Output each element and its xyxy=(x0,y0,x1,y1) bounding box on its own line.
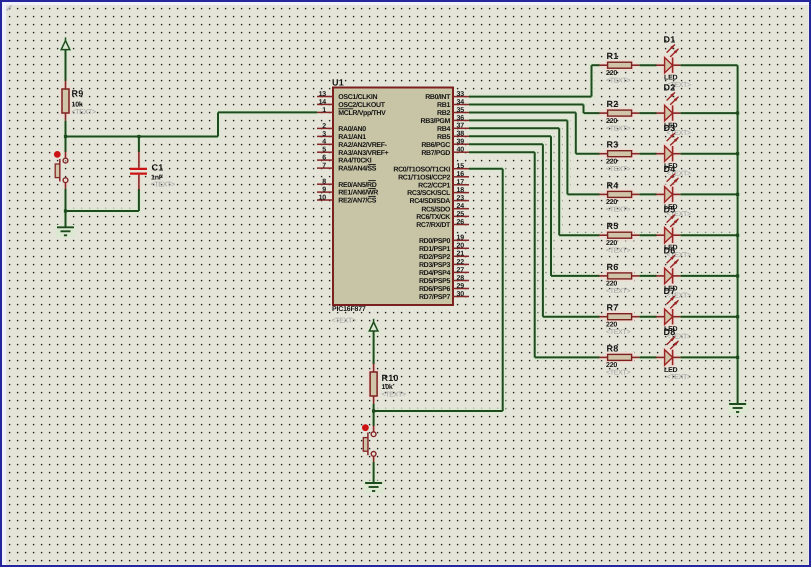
U1 pin 30 (RD7/PSP7) xyxy=(419,291,469,301)
U1 pin 13 (OSC1/CLKIN) xyxy=(317,91,377,101)
svg-text:220: 220 xyxy=(606,281,617,288)
U1 pin 21 (RD2/PSP2) xyxy=(419,251,469,261)
svg-text:220: 220 xyxy=(606,118,617,125)
resistor R5 xyxy=(600,221,640,254)
svg-text:29: 29 xyxy=(457,283,465,290)
svg-text:<TEXT>: <TEXT> xyxy=(606,125,630,132)
svg-text:RD2/PSP2: RD2/PSP2 xyxy=(419,253,451,261)
svg-text:26: 26 xyxy=(457,219,465,226)
wire node A to button 1 xyxy=(65,137,67,153)
wire node A branch to C1 top xyxy=(137,135,140,152)
svg-text:D7: D7 xyxy=(664,286,676,296)
wire RB3 (pin 36) to R4 xyxy=(469,120,600,194)
svg-text:RB4: RB4 xyxy=(437,126,450,133)
wire R6 to D6 xyxy=(640,275,657,277)
svg-text:2: 2 xyxy=(322,123,326,130)
U1 pin 9 (RE1/AN6/WR) xyxy=(317,187,378,197)
wire R3 to D3 xyxy=(640,153,657,155)
U1 pin 33 (RB0/INT) xyxy=(425,91,469,101)
svg-text:220: 220 xyxy=(606,70,617,77)
svg-text:RC7/RX/DT: RC7/RX/DT xyxy=(416,221,451,229)
LED D4 xyxy=(657,164,691,218)
svg-text:D4: D4 xyxy=(664,164,676,174)
svg-text:D8: D8 xyxy=(664,327,676,337)
svg-text:1nF: 1nF xyxy=(151,175,164,182)
wire node B to C1 bottom xyxy=(66,189,139,211)
LED D3 xyxy=(657,123,691,177)
svg-text:<TEXT>: <TEXT> xyxy=(382,392,406,399)
resistor R6 xyxy=(600,262,640,295)
svg-text:10: 10 xyxy=(319,194,327,201)
svg-text:R3: R3 xyxy=(607,140,619,150)
svg-text:27: 27 xyxy=(457,267,465,274)
svg-text:LED: LED xyxy=(664,75,678,82)
U1 pin 16 (RC1/T1OSI/CCP2) xyxy=(398,171,469,181)
resistor R10 xyxy=(370,364,406,404)
wire button 2 to ground xyxy=(373,462,375,483)
capacitor C1 xyxy=(130,152,175,189)
U1 pin 8 (RE0/AN5/RD) xyxy=(317,179,377,189)
svg-text:R9: R9 xyxy=(72,89,84,99)
wire RB7 (pin 40) to R8 xyxy=(469,152,600,357)
svg-text:RE2/AN7/CS: RE2/AN7/CS xyxy=(338,197,376,205)
svg-text:6: 6 xyxy=(322,155,326,162)
svg-text:24: 24 xyxy=(457,203,465,210)
power symbol (VCC arrow above R10) xyxy=(369,319,378,331)
resistor R8 xyxy=(600,343,640,376)
svg-text:9: 9 xyxy=(322,187,326,194)
svg-text:LED: LED xyxy=(664,367,678,374)
svg-text:17: 17 xyxy=(457,179,465,186)
svg-text:<TEXT>: <TEXT> xyxy=(606,207,630,214)
svg-text:1: 1 xyxy=(322,107,326,114)
svg-text:RC3/SCK/SCL: RC3/SCK/SCL xyxy=(407,189,451,197)
resistor R9 xyxy=(62,81,96,121)
wire D7 to cathode bus xyxy=(681,315,740,318)
ground (right, LED bus) xyxy=(729,404,746,412)
wire R8 to D8 xyxy=(640,356,657,358)
svg-text:OSC2/CLKOUT: OSC2/CLKOUT xyxy=(338,101,385,109)
svg-text:3: 3 xyxy=(322,131,326,138)
wire RB2 (pin 35) to R3 xyxy=(469,113,600,154)
wire RB6 (pin 39) to R7 xyxy=(469,144,600,317)
svg-text:RD1/PSP1: RD1/PSP1 xyxy=(419,245,451,253)
svg-text:D6: D6 xyxy=(664,245,676,255)
wire RB4 (pin 37) to R5 xyxy=(469,128,600,235)
push button 2 xyxy=(362,424,376,462)
svg-text:RD3/PSP3: RD3/PSP3 xyxy=(419,261,451,269)
svg-text:30: 30 xyxy=(457,291,465,298)
U1 pin 26 (RC7/RX/DT) xyxy=(416,219,469,229)
svg-text:4: 4 xyxy=(322,139,326,146)
svg-text:19: 19 xyxy=(457,235,465,242)
U1 pin 4 (RA2/AN2/VREF-) xyxy=(317,139,388,149)
wire D6 to cathode bus xyxy=(681,274,740,277)
U1 pin 37 (RB4) xyxy=(437,123,469,133)
svg-text:<TEXT>: <TEXT> xyxy=(606,247,630,254)
wire node B to ground xyxy=(65,211,67,227)
U1 pin 2 (RA0/AN0) xyxy=(317,123,366,133)
U1 pin 35 (RB2) xyxy=(437,107,469,117)
svg-text:R8: R8 xyxy=(607,343,619,353)
svg-text:RB3/PGM: RB3/PGM xyxy=(421,117,451,125)
svg-text:RB5: RB5 xyxy=(437,134,450,141)
svg-text:16: 16 xyxy=(457,171,465,178)
resistor R1 xyxy=(600,51,640,84)
U1 pin 29 (RD6/PSP6) xyxy=(419,283,469,293)
U1 pin 23 (RC4/SDI/SDA) xyxy=(410,195,470,205)
svg-text:<TEXT>: <TEXT> xyxy=(332,318,356,325)
svg-text:OSC1/CLKIN: OSC1/CLKIN xyxy=(338,93,377,101)
svg-text:RA5/AN4/SS: RA5/AN4/SS xyxy=(338,165,376,173)
U1 pin 27 (RD4/PSP4) xyxy=(419,267,469,277)
svg-text:RE0/AN5/RD: RE0/AN5/RD xyxy=(338,181,376,189)
svg-text:20: 20 xyxy=(457,243,465,250)
LED D5 xyxy=(657,205,691,259)
svg-text:18: 18 xyxy=(457,187,465,194)
wire D4 to cathode bus xyxy=(681,193,740,196)
wire power to R10 xyxy=(373,331,375,364)
svg-text:14: 14 xyxy=(319,99,327,106)
wire D5 to cathode bus xyxy=(681,234,740,237)
U1 pin 1 (MCLR/Vpp/THV) xyxy=(317,107,386,117)
wire button 1 to node B xyxy=(65,189,67,211)
svg-text:R6: R6 xyxy=(607,262,619,272)
svg-text:R2: R2 xyxy=(607,99,619,109)
svg-text:RC1/T1OSI/CCP2: RC1/T1OSI/CCP2 xyxy=(398,173,450,181)
resistor R2 xyxy=(600,99,640,132)
U1 pin 40 (RB7/PGD) xyxy=(421,147,469,157)
LED D6 xyxy=(657,245,691,299)
wire power to R9 xyxy=(65,50,67,81)
node A junction xyxy=(64,135,67,138)
U1 pin 39 (RB6/PGC) xyxy=(421,139,469,149)
wire RC0 (pin 15) to node C xyxy=(374,169,503,411)
svg-text:RD6/PSP6: RD6/PSP6 xyxy=(419,285,451,293)
svg-text:RB0/INT: RB0/INT xyxy=(425,93,451,101)
resistor R4 xyxy=(600,180,640,213)
U1 pin 15 (RC0/T1OSO/T1CKI) xyxy=(393,163,469,173)
svg-text:10k: 10k xyxy=(382,383,393,391)
ground (left) xyxy=(57,227,74,235)
wire R9 to junction A xyxy=(65,121,67,137)
cathode bus wire xyxy=(737,65,739,404)
svg-text:R1: R1 xyxy=(607,51,619,61)
wire RB1 (pin 34) to R2 xyxy=(469,105,600,114)
U1 pin 24 (RC5/SDO) xyxy=(421,203,469,213)
op-amp / MCU U1 PIC16F877 body xyxy=(332,78,454,325)
svg-text:RD5/PSP5: RD5/PSP5 xyxy=(419,277,451,285)
U1 pin 14 (OSC2/CLKOUT) xyxy=(317,99,386,109)
svg-text:R5: R5 xyxy=(607,221,619,231)
U1 pin 7 (RA5/AN4/SS) xyxy=(317,163,377,173)
svg-text:<TEXT>: <TEXT> xyxy=(606,77,630,84)
wire R10 to node C xyxy=(373,404,375,411)
svg-text:23: 23 xyxy=(457,195,465,202)
svg-text:22: 22 xyxy=(457,259,465,266)
resistor R7 xyxy=(600,303,640,336)
U1 pin 10 (RE2/AN7/CS) xyxy=(317,194,377,204)
wire D8 to cathode bus xyxy=(681,356,740,359)
svg-text:220: 220 xyxy=(606,240,617,247)
svg-text:RA3/AN3/VREF+: RA3/AN3/VREF+ xyxy=(338,149,388,157)
svg-text:15: 15 xyxy=(457,163,465,170)
U1 pin 28 (RD5/PSP5) xyxy=(419,275,469,285)
node C junction xyxy=(372,409,375,412)
svg-text:<TEXT>: <TEXT> xyxy=(72,109,96,116)
svg-text:D2: D2 xyxy=(664,83,676,93)
svg-text:U1: U1 xyxy=(332,78,344,88)
svg-text:220: 220 xyxy=(606,159,617,166)
svg-text:28: 28 xyxy=(457,275,465,282)
ground (below button 2) xyxy=(365,483,382,491)
svg-text:D1: D1 xyxy=(664,35,676,45)
svg-text:RA1/AN1: RA1/AN1 xyxy=(338,133,366,141)
wire node C to button 2 xyxy=(373,411,375,426)
svg-text:21: 21 xyxy=(457,251,465,258)
svg-text:RD0/PSP0: RD0/PSP0 xyxy=(419,237,451,245)
svg-text:RC5/SDO: RC5/SDO xyxy=(421,205,451,213)
LED D7 xyxy=(657,286,691,340)
svg-text:<TEXT>: <TEXT> xyxy=(606,370,630,377)
svg-text:<TEXT>: <TEXT> xyxy=(151,182,175,189)
U1 pin 18 (RC3/SCK/SCL) xyxy=(407,187,469,197)
svg-text:RC4/SDI/SDA: RC4/SDI/SDA xyxy=(410,197,451,205)
U1 pin 5 (RA3/AN3/VREF+) xyxy=(317,147,389,157)
wire R5 to D5 xyxy=(640,234,657,236)
svg-text:D5: D5 xyxy=(664,205,676,215)
svg-text:RC2/CCP1: RC2/CCP1 xyxy=(418,181,450,189)
svg-text:<TEXT>: <TEXT> xyxy=(667,374,691,381)
svg-text:36: 36 xyxy=(457,115,465,122)
svg-text:RA4/T0CKI: RA4/T0CKI xyxy=(338,157,371,165)
U1 pin 38 (RB5) xyxy=(437,131,469,141)
svg-text:R4: R4 xyxy=(607,180,619,190)
svg-text:RB1: RB1 xyxy=(437,102,450,109)
svg-text:220: 220 xyxy=(606,362,617,369)
svg-text:RE1/AN6/WR: RE1/AN6/WR xyxy=(338,189,378,197)
wire D2 to cathode bus xyxy=(681,112,740,115)
svg-text:<TEXT>: <TEXT> xyxy=(606,166,630,173)
svg-text:220: 220 xyxy=(606,322,617,329)
U1 pin 17 (RC2/CCP1) xyxy=(418,179,469,189)
wire D3 to cathode bus xyxy=(681,152,740,155)
svg-text:25: 25 xyxy=(457,211,465,218)
svg-text:40: 40 xyxy=(457,147,465,154)
svg-text:MCLR/Vpp/THV: MCLR/Vpp/THV xyxy=(338,109,386,117)
LED D1 xyxy=(657,35,691,89)
wire RB5 (pin 38) to R6 xyxy=(469,136,600,276)
wire R1 to D1 xyxy=(640,64,657,66)
wire RB0 (pin 33) to R1 xyxy=(469,65,600,96)
push button 1 xyxy=(54,151,68,189)
svg-text:RC0/T1OSO/T1CKI: RC0/T1OSO/T1CKI xyxy=(393,165,450,173)
svg-text:35: 35 xyxy=(457,107,465,114)
svg-text:34: 34 xyxy=(457,99,465,106)
U1 pin 22 (RD3/PSP3) xyxy=(419,259,469,269)
svg-text:PIC16F877: PIC16F877 xyxy=(332,306,366,313)
svg-text:13: 13 xyxy=(319,91,327,98)
svg-text:RA0/AN0: RA0/AN0 xyxy=(338,125,366,133)
wire node A to MCLR (pin 1) xyxy=(66,112,318,136)
wire R7 to D7 xyxy=(640,316,657,318)
svg-text:R7: R7 xyxy=(607,303,619,313)
LED D2 xyxy=(657,83,691,137)
U1 pin 36 (RB3/PGM) xyxy=(421,115,469,125)
svg-text:7: 7 xyxy=(322,163,326,170)
U1 pin 19 (RD0/PSP0) xyxy=(419,235,469,245)
svg-text:RD7/PSP7: RD7/PSP7 xyxy=(419,293,451,301)
svg-text:RA2/AN2/VREF-: RA2/AN2/VREF- xyxy=(338,141,387,149)
wire D1 to cathode bus xyxy=(681,64,738,66)
svg-text:220: 220 xyxy=(606,199,617,206)
power symbol (left VCC arrow) xyxy=(61,37,70,49)
svg-text:39: 39 xyxy=(457,139,465,146)
U1 pin 20 (RD1/PSP1) xyxy=(419,243,469,253)
svg-text:8: 8 xyxy=(322,179,326,186)
svg-text:33: 33 xyxy=(457,91,465,98)
resistor R3 xyxy=(600,140,640,173)
svg-text:10k: 10k xyxy=(72,101,83,109)
svg-text:<TEXT>: <TEXT> xyxy=(606,329,630,336)
wire R4 to D4 xyxy=(640,193,657,195)
svg-text:<TEXT>: <TEXT> xyxy=(606,288,630,295)
U1 pin 6 (RA4/T0CKI) xyxy=(317,155,372,165)
svg-text:38: 38 xyxy=(457,131,465,138)
wire R2 to D2 xyxy=(640,112,657,114)
U1 pin 34 (RB1) xyxy=(437,99,469,109)
svg-text:RB2: RB2 xyxy=(437,110,450,117)
U1 pin 25 (RC6/TX/CK) xyxy=(416,211,469,221)
svg-text:D3: D3 xyxy=(664,123,676,133)
node B junction xyxy=(64,209,67,212)
U1 pin 3 (RA1/AN1) xyxy=(317,131,366,141)
svg-text:RB7/PGD: RB7/PGD xyxy=(421,149,450,157)
svg-text:RC6/TX/CK: RC6/TX/CK xyxy=(416,213,450,221)
svg-text:5: 5 xyxy=(322,147,326,154)
svg-text:RB6/PGC: RB6/PGC xyxy=(421,141,450,149)
svg-text:C1: C1 xyxy=(152,163,164,173)
svg-text:37: 37 xyxy=(457,123,465,130)
svg-text:RD4/PSP4: RD4/PSP4 xyxy=(419,269,451,277)
svg-text:R10: R10 xyxy=(382,373,399,383)
LED D8 xyxy=(657,327,691,381)
